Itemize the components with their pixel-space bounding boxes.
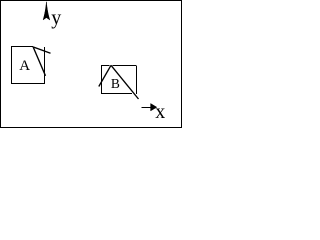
svg-text:B: B <box>111 76 120 91</box>
x axis arrow <box>141 107 152 109</box>
wire through B down-right <box>111 65 139 99</box>
wire through B down-left <box>99 65 111 86</box>
svg-text:y: y <box>51 7 61 29</box>
y axis arrow <box>43 2 50 20</box>
block B <box>101 65 136 94</box>
wire steep line at A <box>33 47 45 76</box>
block A <box>11 47 45 85</box>
svg-text:A: A <box>19 58 30 74</box>
wire shallow line at A <box>33 47 51 53</box>
svg-text:x: x <box>155 101 165 123</box>
frame border <box>1 1 182 128</box>
